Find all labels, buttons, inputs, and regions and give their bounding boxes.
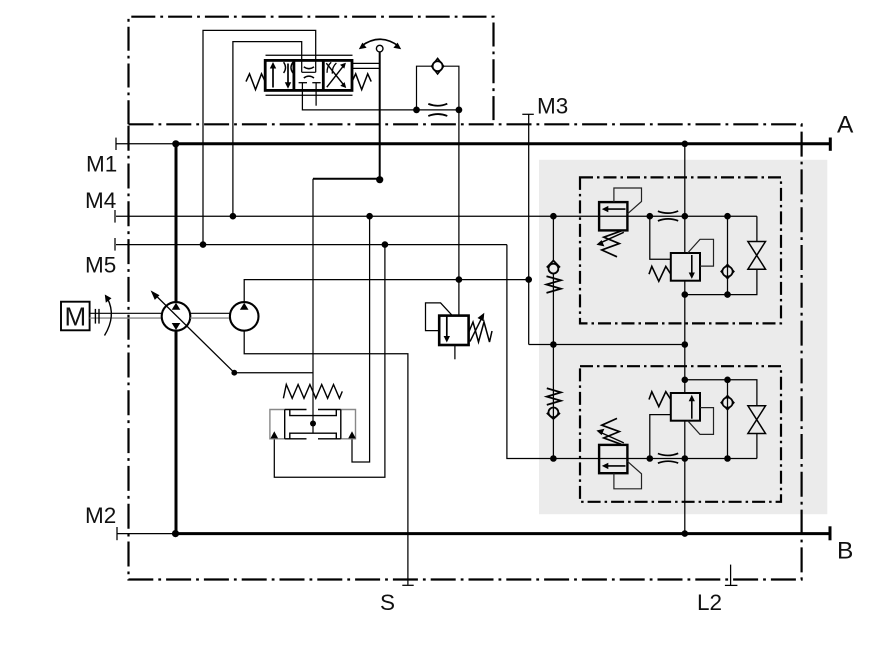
wire NV2 branch and lower box top rail [685,380,757,459]
wire DR valve tank stub [454,345,456,359]
port M2 stub [117,533,176,535]
junction node on B line at x176 [172,530,179,537]
relief valve RV2 pilot flag [614,461,642,489]
wire swashplate link [153,293,234,373]
junction nodes on M5 line [200,241,207,248]
orifice O2 arcs (upper box) [658,211,678,213]
relief valve RV1 pilot flag [614,188,642,214]
junction node servo piston [310,421,316,427]
servo cylinder body (gray) [270,410,356,439]
main variable pump P1 [162,302,191,331]
svg-text:S: S [380,590,395,615]
svg-text:M1: M1 [86,151,117,176]
reducer PR1 pilot flag [688,239,714,266]
junction node feedback [376,176,383,183]
svg-text:M2: M2 [85,503,116,528]
shaded control-option panel [539,160,827,514]
junction nodes upper box bottom rail [682,291,689,298]
relief valve RV2 line through body [599,458,627,460]
wire RV1 pilot tap [650,216,671,259]
port M1 stub [116,143,176,145]
svg-text:A: A [837,112,854,139]
wire M4 check branch [552,216,554,344]
relief valve RV1 flow arrow [606,208,626,210]
check valve C4 (upper box) [721,264,734,278]
wire lower box bottom rail [553,458,757,460]
junction node on B line at x685 [682,530,689,537]
relief valve RV2 flow arrow [606,465,626,467]
valve block boundary lower (dash-dot) [580,366,781,502]
wire feedback vertical to servo spring [312,179,314,424]
port A bus line (thick) [176,142,831,145]
check valve C1 (diamond and ball) [432,58,444,74]
valve V1 left box throttle arcs [284,62,286,73]
bypass check valve loop rectangle [417,66,459,110]
junction node swash link [231,370,237,376]
orifice O3 arcs (lower box) [658,453,678,455]
pump interconnect shaft [190,312,230,314]
port M4 line [116,215,757,217]
port L2 stub [730,565,732,586]
relief valve RV1 spring and adjuster [602,231,621,257]
servo piston cup top [290,410,337,416]
wire RV2 pilot tap [650,415,671,459]
valve V1 centre box tank T marks [299,82,307,84]
junction nodes lower box bottom rail [550,455,557,462]
junction nodes on pilot orifice line [413,107,420,114]
reducer PR1 spring [649,266,671,281]
wire M3 rail to block junction [529,344,685,346]
junction node on A line at x176 [172,140,179,147]
wire M5 drop to lower valve block [507,245,554,459]
junction nodes lower box top rail [682,377,689,384]
pressure reducer PR2 (lower) body [671,393,700,421]
reducer PR2 pilot flag [688,408,714,435]
electric motor M box [61,302,90,331]
reducer PR2 spring [649,392,671,407]
port B end tick [829,526,832,540]
DR valve pilot loop [426,303,452,331]
servo piston cup bottom [290,433,337,439]
enclosure boundary (pilot valve box, dash-dot) [129,17,494,125]
check valve C2 with spring (upper, at M4 branch) [547,261,561,293]
shutoff needle valve NV1 (upper bowtie) [748,242,766,270]
port S drain line [244,331,408,585]
wire pilot valve plugged stem [315,83,317,106]
wire pilot valve tank stem to orifice line [302,83,459,110]
wire check/orifice drop to DR valve [458,110,460,316]
valve V1 right spring [352,74,371,90]
svg-text:M5: M5 [85,253,116,278]
wire A line drop through reducer valves to B line [684,144,686,253]
port A end tick [829,138,832,151]
wire pilot pump output to DR/M3 rail [244,280,529,303]
relief valve RV1 (upper) body [599,202,627,230]
relief valve RV2 (lower) body [599,445,627,473]
servo spring [283,385,342,399]
port B bus line (thick) [176,532,831,535]
wire knob line down to feedback node [379,52,381,180]
adjusting knob swing arrow [362,39,399,46]
wire servo right drain (from M4) [352,216,370,462]
svg-text:M: M [65,302,87,332]
valve V1 output double line to knob [352,62,380,64]
svg-text:M4: M4 [85,188,116,213]
shutoff needle valve NV2 (lower bowtie) [748,406,766,434]
valve V1 left spring [246,74,265,90]
junction nodes on M3 rail y344 [550,341,557,348]
junction node on A line at x685 [682,141,689,148]
reducer PR2 flow arrow [691,399,693,419]
shaft coupling marks [94,309,96,324]
junction nodes on M4 line [230,213,237,220]
wire M4 branch up to pilot valve [233,42,302,217]
pilot control valve V1 body [265,55,352,95]
servo piston lands [284,410,286,439]
servo body black edge segments [285,409,307,411]
adjusting knob circle [376,45,383,52]
wire C4 branch (upper) [727,216,729,294]
valve V1 left box up arrow [272,66,274,88]
enclosure boundary (main pump housing, dash-dot) [129,124,802,579]
servo inlet arrowheads [271,431,279,438]
valve V1 left box down arrow [287,64,289,86]
valve V1 centre box bleed orifice [302,71,316,73]
shaft rotation arrow [105,299,112,336]
check valve C5 (lower box) [721,396,734,410]
wire NV1 branch (upper) [685,216,757,294]
swashplate link arrowhead [151,290,160,300]
wire servo left drain (from M5) [274,245,385,478]
motor shaft double line [90,312,162,314]
junction nodes on pilot rail y280 [456,276,463,283]
check valve C3 with spring (lower) [547,388,561,419]
DR valve spring with adjust arrow [469,322,492,342]
relief valve RV1 line through body [599,215,627,217]
wire swashplate feedback horizontal [234,372,313,374]
svg-text:B: B [837,538,853,565]
relief valve RV2 spring and adjuster [602,418,621,444]
DR pressure cut-off valve [439,316,468,345]
wire feedback node horizontal [313,178,380,180]
orifice O1 arcs [428,104,447,106]
wire C5 branch (lower) [727,380,729,459]
main pressure line vertical (thick) [175,144,178,302]
svg-text:M3: M3 [537,93,568,118]
wire servo piston stub [312,424,314,434]
valve V1 right box crossed arrows [326,63,344,86]
reducer PR1 flow arrow [691,255,693,275]
valve block boundary upper (dash-dot) [580,177,781,323]
wire M5 check branch [552,345,554,459]
pilot gear pump P2 [230,302,259,331]
pressure reducer PR1 (upper) body [671,253,700,281]
svg-text:L2: L2 [697,590,722,615]
valve V1 right box throttle arcs [327,62,331,73]
wire M5 branch up to pilot valve [203,30,316,244]
port M5 line [116,244,507,246]
port M3 stub [528,114,530,344]
